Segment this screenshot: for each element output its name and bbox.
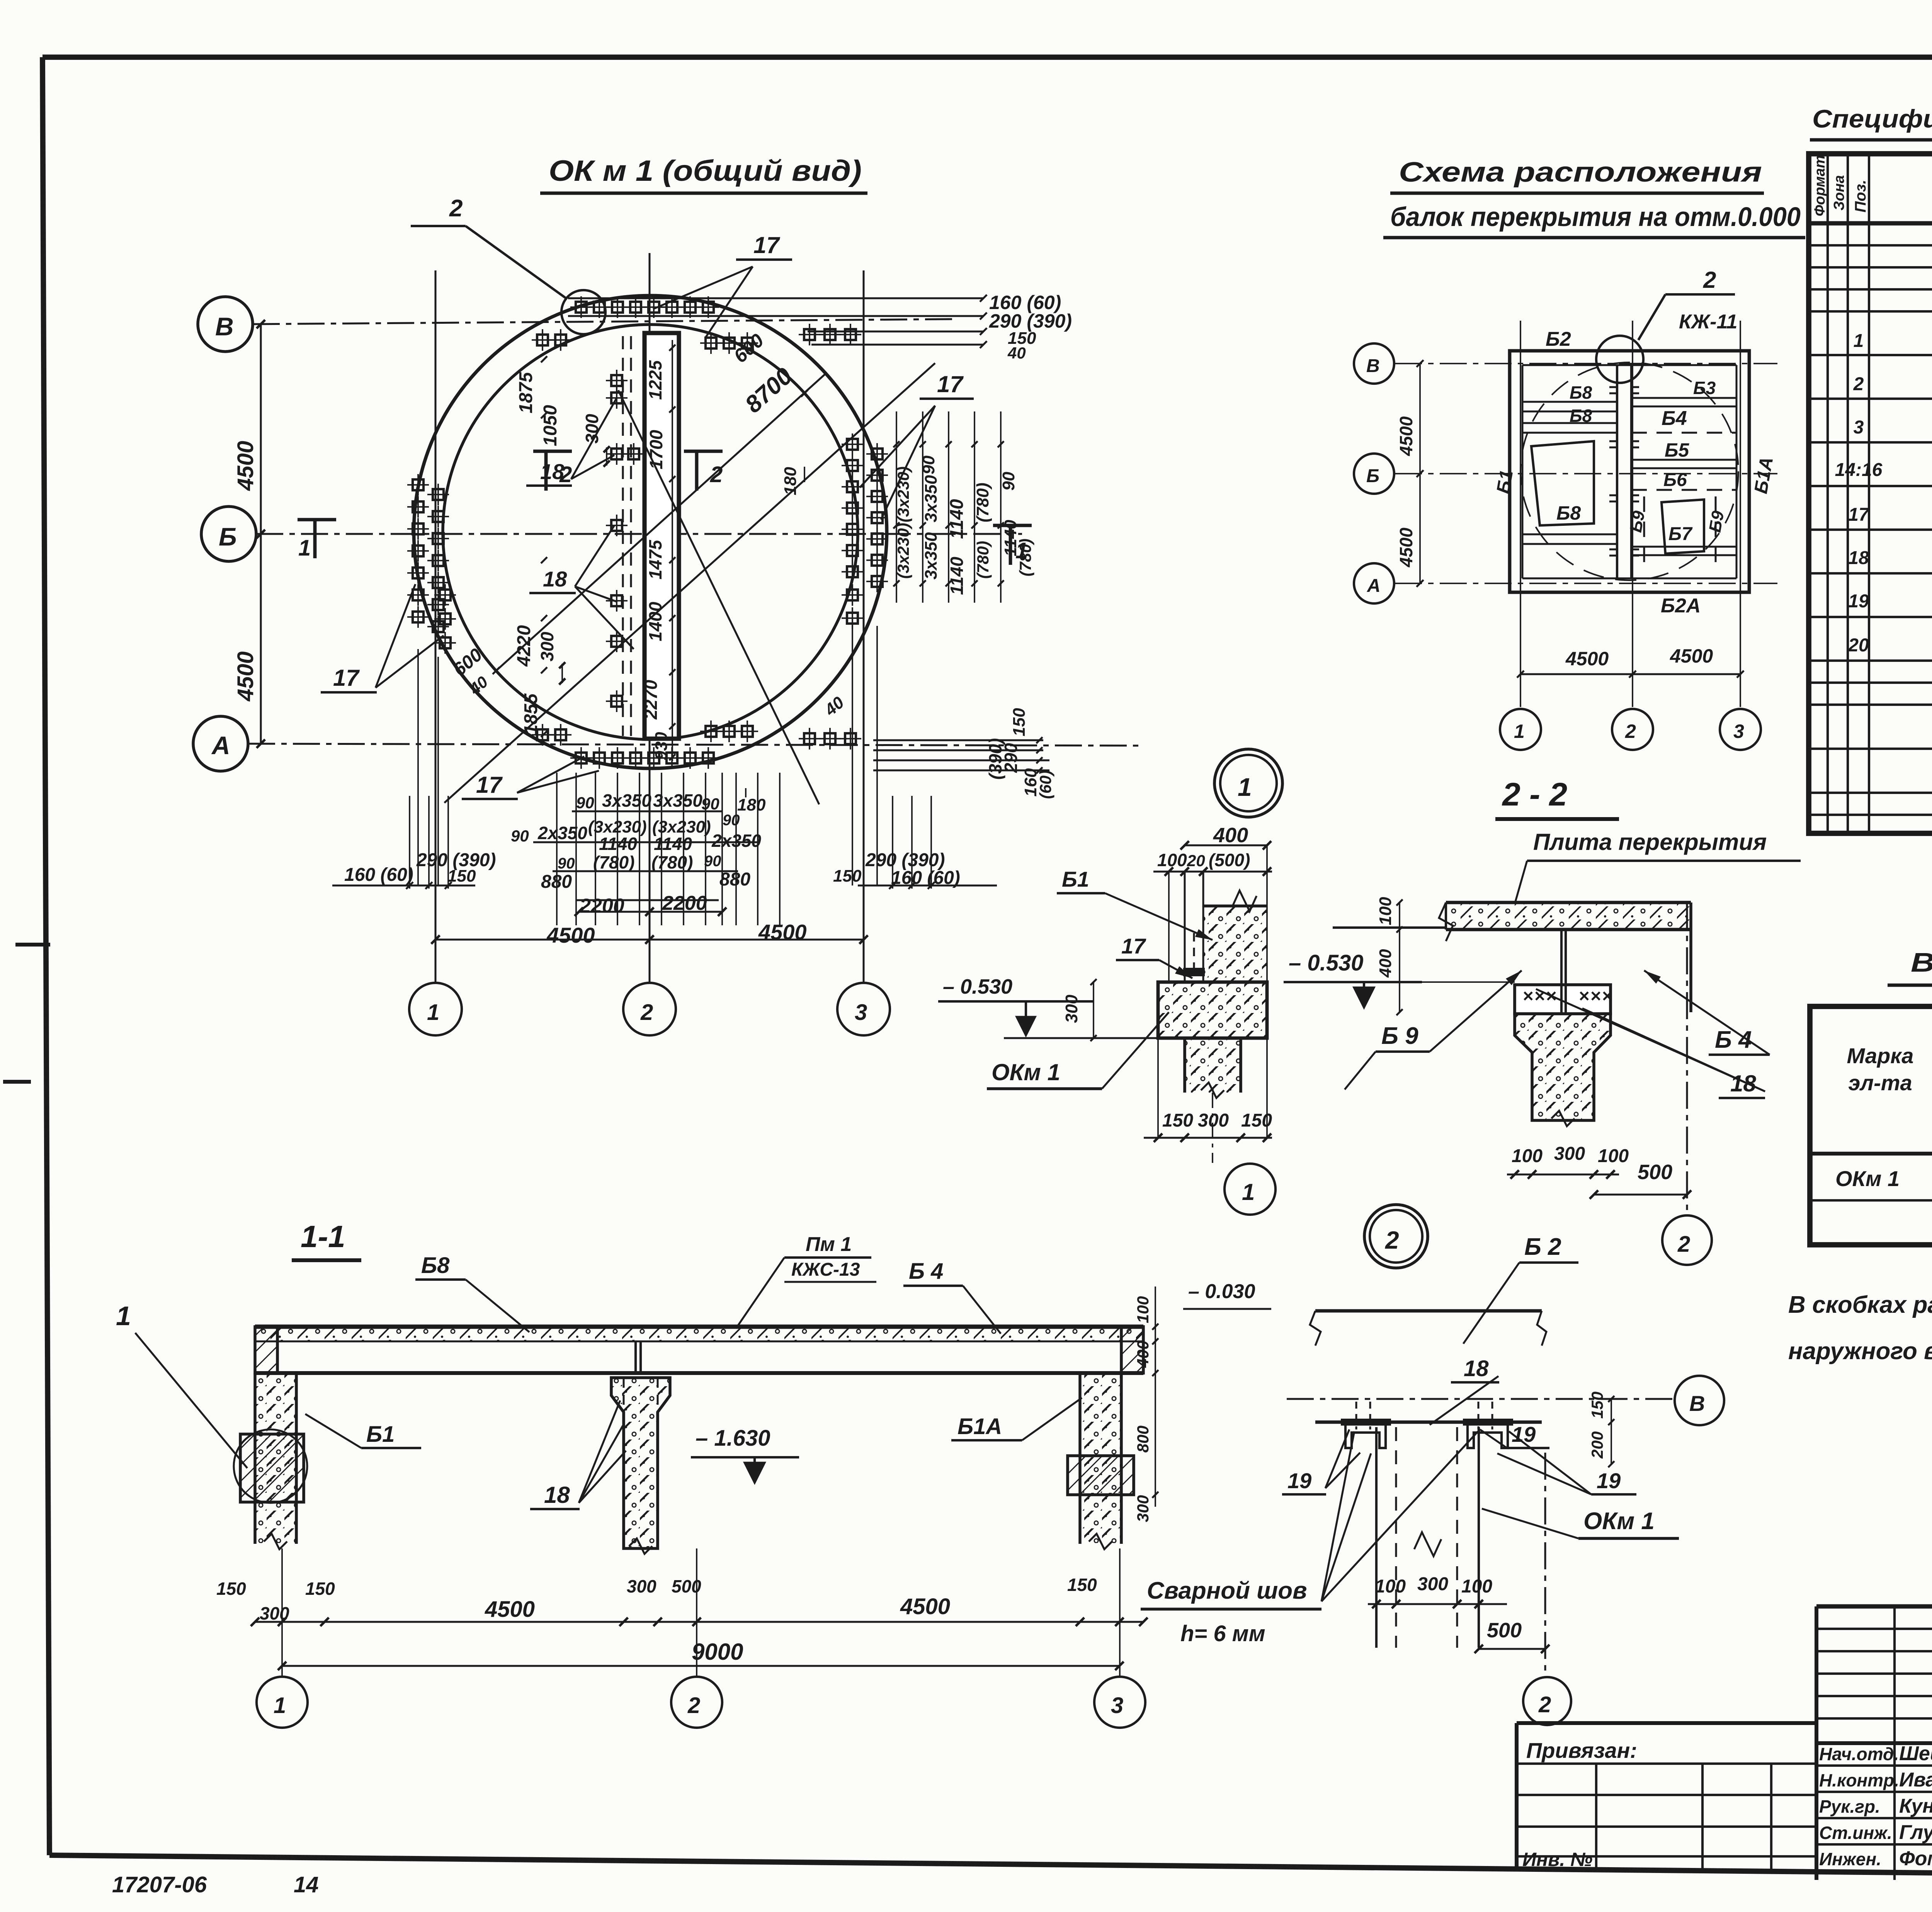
svg-text:20: 20 — [1187, 851, 1205, 870]
svg-text:300: 300 — [1554, 1144, 1585, 1164]
svg-text:В: В — [1366, 356, 1380, 376]
svg-text:Б 4: Б 4 — [909, 1259, 943, 1284]
svg-text:Б1: Б1 — [366, 1422, 395, 1447]
svg-text:ОКм 1: ОКм 1 — [1835, 1166, 1900, 1191]
svg-text:14: 14 — [294, 1872, 319, 1897]
svg-text:Схема расположения: Схема расположения — [1399, 157, 1762, 188]
svg-text:Б8: Б8 — [421, 1253, 450, 1278]
svg-text:Инв. №: Инв. № — [1522, 1849, 1592, 1870]
svg-text:В: В — [215, 312, 234, 341]
svg-text:Рук.гр.: Рук.гр. — [1819, 1796, 1880, 1817]
svg-text:400: 400 — [1376, 949, 1395, 978]
svg-text:19: 19 — [1287, 1468, 1311, 1493]
svg-text:4500: 4500 — [1565, 648, 1609, 670]
svg-text:4220: 4220 — [514, 625, 534, 667]
svg-text:Н.контр.: Н.контр. — [1819, 1770, 1899, 1790]
svg-text:150: 150 — [1010, 708, 1029, 736]
svg-text:2: 2 — [640, 1000, 653, 1025]
svg-text:2х350: 2х350 — [711, 831, 761, 851]
svg-text:Б8: Б8 — [1570, 382, 1592, 403]
svg-text:400: 400 — [1213, 824, 1248, 847]
svg-text:180: 180 — [737, 795, 766, 814]
svg-text:Б 9: Б 9 — [1381, 1023, 1418, 1049]
svg-text:17207-06: 17207-06 — [112, 1872, 207, 1897]
svg-text:3х350: 3х350 — [653, 790, 702, 811]
svg-text:3: 3 — [855, 1000, 867, 1025]
svg-text:40: 40 — [1007, 344, 1026, 362]
svg-text:18: 18 — [1848, 548, 1869, 568]
svg-text:4500: 4500 — [485, 1597, 535, 1622]
svg-text:3х350: 3х350 — [922, 475, 940, 522]
svg-text:Б 2: Б 2 — [1524, 1234, 1561, 1260]
svg-text:1: 1 — [298, 535, 311, 561]
svg-text:Б: Б — [219, 522, 237, 551]
svg-text:150: 150 — [1588, 1392, 1606, 1419]
svg-text:2200: 2200 — [662, 892, 707, 914]
svg-text:А: А — [1367, 576, 1381, 596]
svg-text:Б6: Б6 — [1663, 470, 1687, 490]
svg-text:2: 2 — [1385, 1226, 1399, 1254]
svg-text:90: 90 — [999, 472, 1018, 491]
svg-text:(500): (500) — [1209, 850, 1250, 870]
svg-text:(3х230): (3х230) — [894, 523, 912, 579]
svg-text:18: 18 — [1730, 1071, 1756, 1096]
svg-text:4500: 4500 — [1396, 416, 1416, 456]
svg-text:Б9: Б9 — [1706, 509, 1728, 534]
svg-text:Спецификация элементов монол: Спецификация элементов монолитной констр… — [1812, 104, 1932, 133]
svg-text:Б3: Б3 — [1693, 378, 1716, 398]
svg-text:– 0.030: – 0.030 — [1188, 1280, 1255, 1303]
svg-text:300: 300 — [537, 632, 557, 661]
svg-text:(780): (780) — [1016, 539, 1034, 576]
svg-text:500: 500 — [1638, 1161, 1672, 1184]
svg-text:Пм 1: Пм 1 — [806, 1233, 852, 1256]
svg-text:3х350: 3х350 — [602, 790, 651, 811]
svg-text:В скобках размеры для рас: В скобках размеры для расчетной температ… — [1788, 1292, 1932, 1318]
svg-text:18: 18 — [544, 1482, 570, 1508]
svg-text:17: 17 — [1121, 934, 1146, 958]
svg-text:150: 150 — [305, 1579, 335, 1599]
svg-text:1: 1 — [427, 1000, 439, 1025]
svg-text:– 0.530: – 0.530 — [943, 975, 1012, 998]
svg-text:17: 17 — [937, 371, 964, 397]
svg-text:1700: 1700 — [646, 430, 666, 469]
svg-text:17: 17 — [333, 665, 360, 691]
svg-text:400: 400 — [1134, 1341, 1152, 1368]
svg-text:14:16: 14:16 — [1835, 460, 1883, 480]
svg-text:90: 90 — [511, 827, 529, 845]
svg-text:(60): (60) — [1036, 770, 1054, 799]
svg-text:19: 19 — [1848, 591, 1869, 612]
svg-text:Марка: Марка — [1847, 1044, 1914, 1068]
svg-text:90: 90 — [576, 794, 594, 812]
svg-text:Шейка: Шейка — [1899, 1742, 1932, 1765]
svg-text:(780): (780) — [593, 852, 634, 872]
svg-text:1: 1 — [274, 1693, 286, 1718]
svg-text:300: 300 — [1417, 1574, 1448, 1594]
svg-text:18: 18 — [543, 567, 567, 591]
svg-text:200: 200 — [1588, 1431, 1606, 1459]
svg-text:1: 1 — [1854, 331, 1864, 351]
svg-text:18: 18 — [1464, 1356, 1489, 1381]
svg-text:КЖ-11: КЖ-11 — [1679, 311, 1737, 333]
svg-text:Фоменко: Фоменко — [1899, 1847, 1932, 1870]
svg-text:(3х230): (3х230) — [894, 466, 912, 522]
svg-text:КЖС-13: КЖС-13 — [791, 1259, 860, 1280]
svg-text:2: 2 — [1853, 374, 1864, 394]
svg-text:800: 800 — [1134, 1426, 1152, 1453]
svg-text:Привязан:: Привязан: — [1526, 1738, 1637, 1762]
svg-text:1875: 1875 — [516, 372, 536, 413]
svg-text:2: 2 — [687, 1693, 700, 1718]
svg-text:1855: 1855 — [521, 693, 541, 735]
svg-text:1-1: 1-1 — [301, 1219, 345, 1254]
svg-text:эл-та: эл-та — [1848, 1071, 1912, 1095]
svg-text:1: 1 — [1514, 721, 1525, 742]
svg-text:300: 300 — [260, 1603, 289, 1623]
svg-text:1: 1 — [1238, 773, 1252, 801]
svg-text:1140: 1140 — [599, 834, 637, 854]
svg-text:1: 1 — [116, 1301, 131, 1331]
svg-text:180: 180 — [781, 467, 800, 495]
svg-text:Формат: Формат — [1812, 155, 1828, 216]
svg-text:100: 100 — [1134, 1296, 1152, 1323]
svg-text:2: 2 — [1703, 267, 1716, 293]
svg-text:290: 290 — [1001, 743, 1021, 773]
svg-text:1400: 1400 — [645, 602, 665, 641]
svg-text:90: 90 — [723, 812, 740, 829]
svg-text:300: 300 — [627, 1576, 656, 1596]
svg-text:Нач.отд.: Нач.отд. — [1819, 1744, 1899, 1764]
svg-text:3х350: 3х350 — [922, 532, 940, 580]
svg-text:Ст.инж.: Ст.инж. — [1819, 1823, 1892, 1843]
svg-text:90: 90 — [701, 795, 719, 813]
svg-text:90: 90 — [558, 855, 575, 872]
svg-text:4500: 4500 — [233, 441, 258, 491]
svg-text:наружного воздуха t=-40°С.: наружного воздуха t=-40°С. — [1788, 1338, 1932, 1365]
svg-text:1050: 1050 — [540, 405, 561, 446]
svg-text:Инжен.: Инжен. — [1819, 1849, 1881, 1869]
svg-text:Б4: Б4 — [1662, 407, 1687, 430]
svg-text:17: 17 — [1848, 505, 1870, 525]
svg-text:Б7: Б7 — [1668, 524, 1693, 544]
svg-text:90: 90 — [704, 853, 721, 870]
svg-text:3: 3 — [1854, 417, 1864, 438]
svg-text:100: 100 — [1461, 1576, 1492, 1597]
svg-text:Б8: Б8 — [1556, 502, 1581, 524]
svg-text:19: 19 — [1597, 1468, 1621, 1493]
svg-text:4500: 4500 — [1396, 527, 1416, 568]
svg-text:2х350: 2х350 — [537, 823, 587, 843]
svg-text:150: 150 — [833, 867, 862, 885]
svg-text:1: 1 — [1242, 1179, 1255, 1205]
svg-text:2: 2 — [1538, 1692, 1551, 1717]
svg-text:Б2: Б2 — [1546, 328, 1571, 350]
svg-text:17: 17 — [476, 772, 503, 798]
svg-text:880: 880 — [719, 869, 750, 890]
svg-text:300: 300 — [582, 414, 602, 444]
svg-text:балок перекрытия на отм.0.00: балок перекрытия на отм.0.000 — [1390, 202, 1801, 232]
svg-text:9000: 9000 — [692, 1639, 743, 1665]
svg-text:Б8: Б8 — [1570, 406, 1592, 426]
svg-text:150: 150 — [1241, 1110, 1272, 1131]
svg-text:20: 20 — [1848, 635, 1869, 656]
svg-text:Б1А: Б1А — [957, 1414, 1002, 1439]
svg-text:100: 100 — [1598, 1146, 1629, 1166]
svg-text:ОК м 1 (общий вид): ОК м 1 (общий вид) — [549, 155, 862, 187]
svg-text:880: 880 — [541, 872, 572, 892]
svg-text:ОКм 1: ОКм 1 — [1583, 1508, 1655, 1535]
svg-text:– 1.630: – 1.630 — [696, 1426, 770, 1451]
svg-text:Глуменко: Глуменко — [1899, 1821, 1932, 1844]
svg-text:100: 100 — [1376, 897, 1395, 925]
svg-text:1140: 1140 — [654, 834, 692, 854]
svg-text:2: 2 — [449, 195, 463, 222]
svg-text:Сварной шов: Сварной шов — [1147, 1577, 1307, 1604]
svg-text:2: 2 — [1625, 721, 1636, 742]
svg-text:930: 930 — [652, 732, 671, 760]
svg-text:150: 150 — [1162, 1110, 1193, 1131]
svg-text:2270: 2270 — [641, 680, 661, 720]
svg-text:– 0.530: – 0.530 — [1289, 950, 1364, 976]
svg-text:Б5: Б5 — [1665, 439, 1689, 461]
svg-text:Выборка стали на один элем: Выборка стали на один элемент, кг — [1911, 947, 1932, 977]
svg-text:Б1: Б1 — [1493, 469, 1517, 495]
svg-text:4500: 4500 — [233, 651, 258, 702]
svg-text:2: 2 — [1677, 1232, 1690, 1257]
svg-text:(780): (780) — [973, 483, 992, 522]
svg-text:4500: 4500 — [1670, 645, 1713, 667]
svg-text:100: 100 — [1512, 1146, 1543, 1166]
svg-text:1140: 1140 — [947, 557, 967, 595]
svg-text:(780): (780) — [651, 852, 693, 872]
svg-text:4500: 4500 — [546, 923, 595, 947]
svg-text:Плита перекрытия: Плита перекрытия — [1533, 829, 1767, 855]
svg-text:Иванов: Иванов — [1899, 1769, 1932, 1791]
svg-text:18: 18 — [540, 459, 565, 484]
svg-text:3: 3 — [1733, 721, 1744, 742]
svg-text:Кунцевич: Кунцевич — [1899, 1795, 1932, 1817]
svg-text:Б1: Б1 — [1062, 867, 1089, 891]
svg-text:160 (60): 160 (60) — [344, 865, 413, 885]
svg-text:300: 300 — [1062, 994, 1081, 1023]
svg-text:100: 100 — [1375, 1576, 1406, 1597]
svg-text:Б: Б — [1366, 466, 1379, 486]
svg-text:300: 300 — [1134, 1495, 1152, 1522]
svg-text:4500: 4500 — [900, 1594, 950, 1619]
svg-text:1475: 1475 — [645, 539, 665, 580]
svg-text:150: 150 — [1067, 1575, 1097, 1595]
svg-text:Б2А: Б2А — [1661, 595, 1701, 617]
svg-text:4500: 4500 — [758, 920, 807, 944]
svg-text:А: А — [211, 731, 230, 760]
svg-text:h= 6 мм: h= 6 мм — [1180, 1621, 1265, 1646]
svg-text:1140: 1140 — [947, 499, 967, 539]
svg-text:150: 150 — [216, 1579, 246, 1599]
svg-text:2: 2 — [710, 462, 723, 487]
svg-text:3: 3 — [1111, 1693, 1123, 1718]
svg-text:В: В — [1689, 1391, 1705, 1416]
svg-text:Поз.: Поз. — [1852, 180, 1869, 212]
svg-text:90: 90 — [919, 455, 938, 474]
svg-text:500: 500 — [1487, 1619, 1522, 1642]
svg-text:ОКм 1: ОКм 1 — [992, 1059, 1060, 1085]
svg-text:2 - 2: 2 - 2 — [1502, 776, 1567, 812]
svg-text:Б9: Б9 — [1626, 509, 1649, 534]
svg-text:300: 300 — [1198, 1110, 1229, 1131]
svg-text:17: 17 — [753, 232, 780, 258]
svg-text:1225: 1225 — [645, 360, 665, 400]
svg-text:2200: 2200 — [579, 895, 624, 917]
svg-text:Зона: Зона — [1831, 175, 1847, 211]
svg-text:(780): (780) — [974, 541, 992, 579]
